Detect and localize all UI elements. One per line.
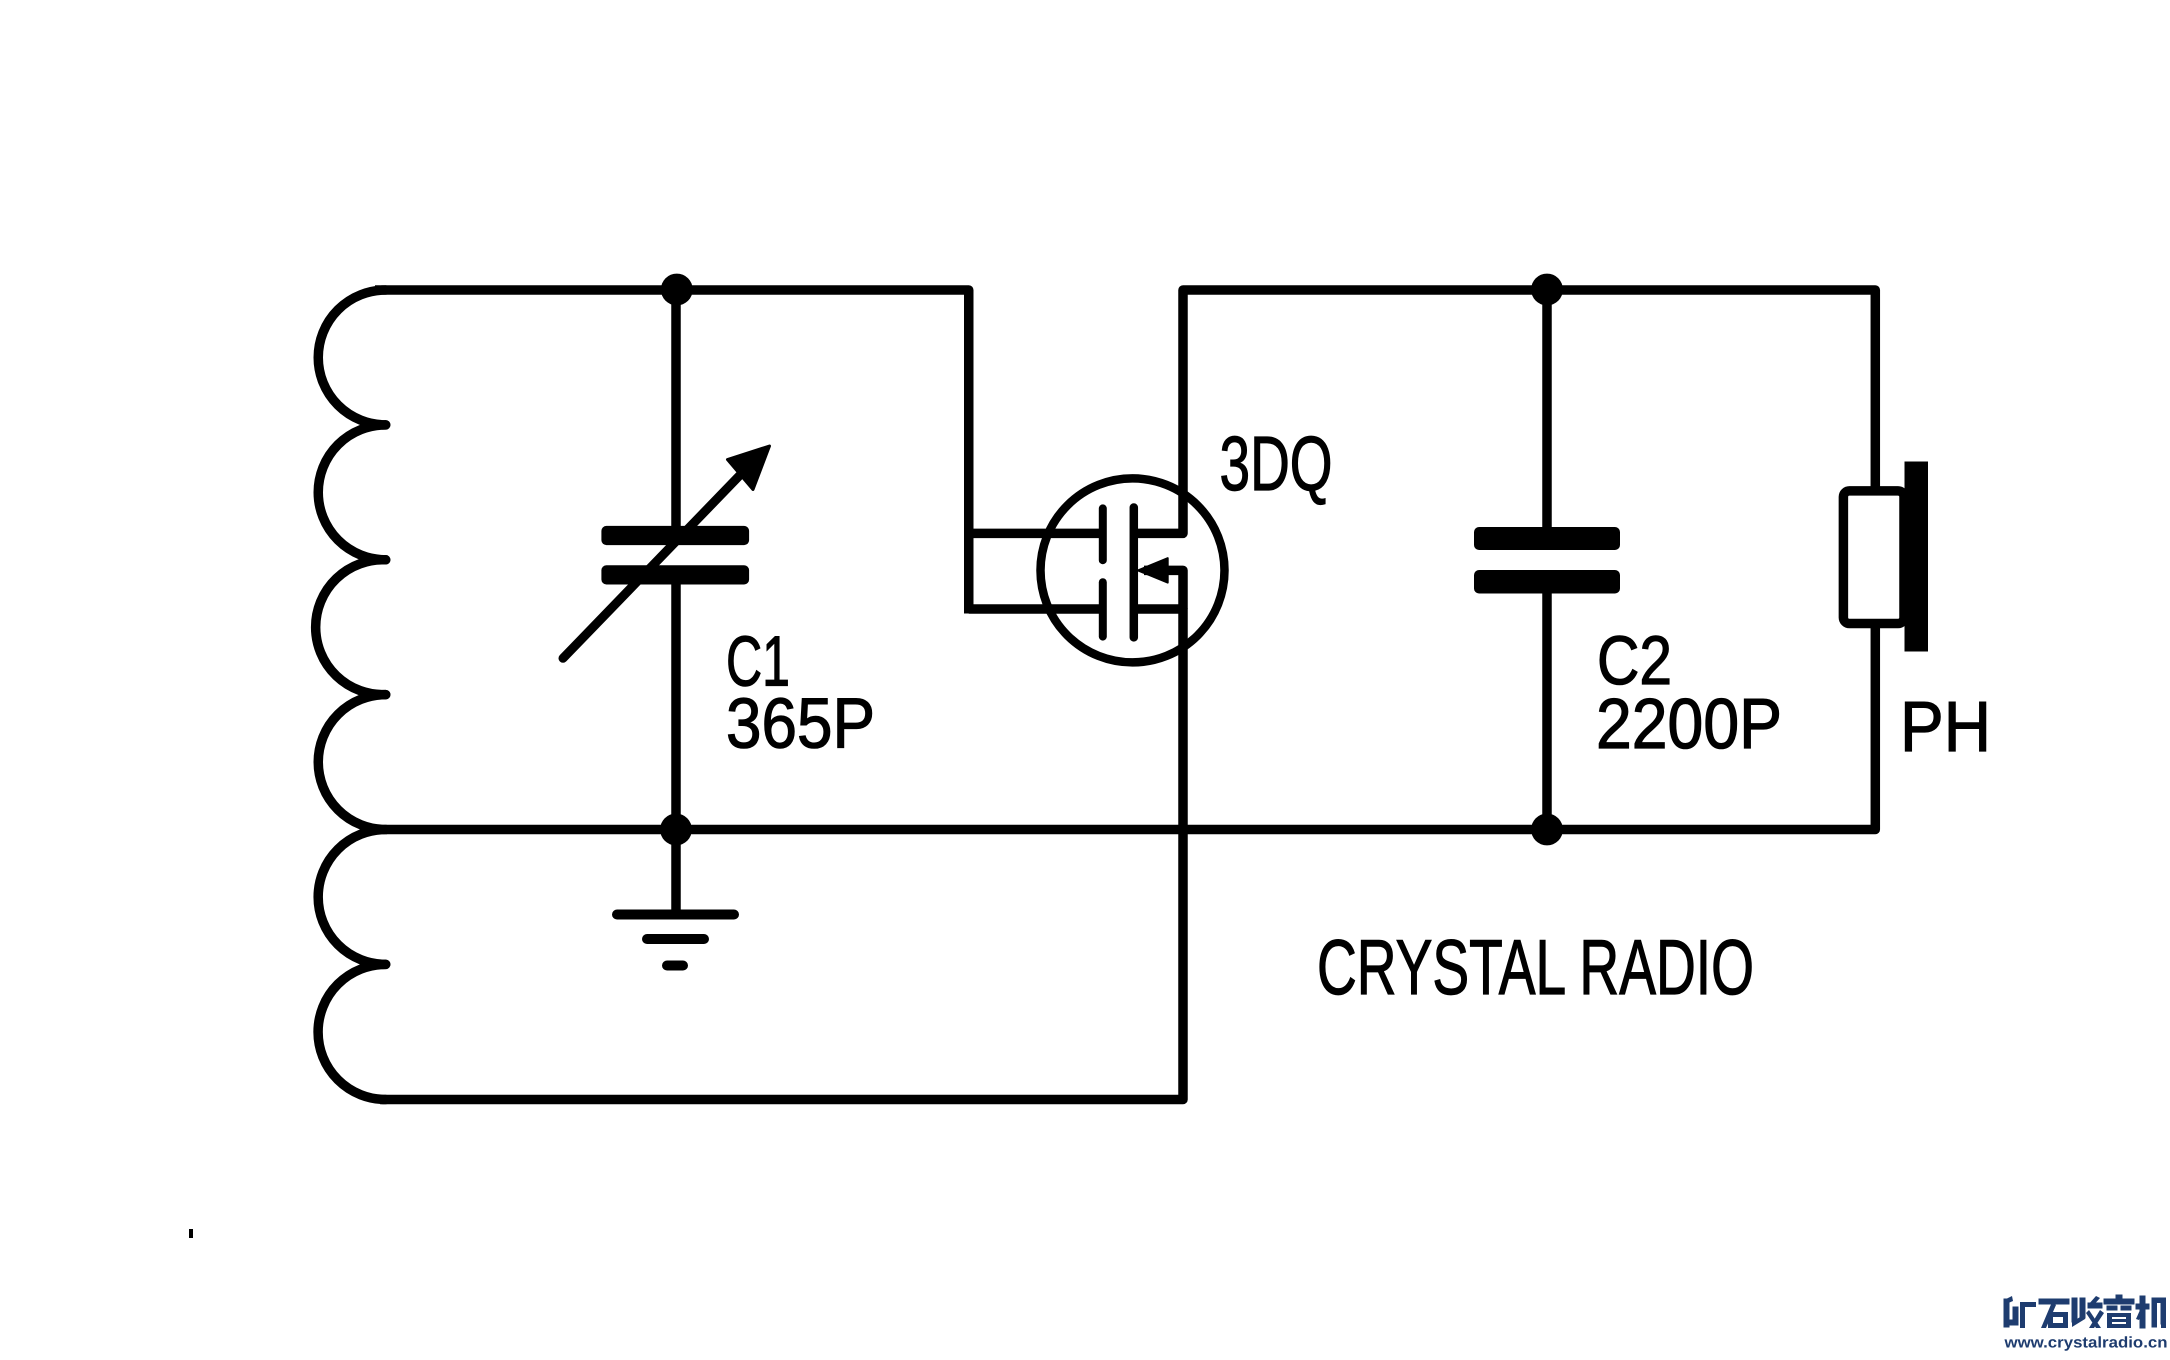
wire C2 bottom lead <box>1542 591 1552 830</box>
wire C1 top lead <box>671 290 681 528</box>
svg-text:365P: 365P <box>726 685 875 764</box>
junction dot node ground rail / C2 bottom <box>1531 814 1563 846</box>
svg-text:CRYSTAL RADIO: CRYSTAL RADIO <box>1317 923 1754 1011</box>
watermark CJK 矿石收音机 (drawn strokes) <box>2004 1295 2166 1328</box>
capacitor C1 variable: adjustment arrow shaft <box>563 473 742 658</box>
transistor Q1 MOSFET 3DQ: body circle <box>1041 478 1225 662</box>
wire substrate tie (arrow line to source) <box>1144 570 1183 609</box>
wire gate lead G2 <box>969 604 1100 614</box>
capacitor C2: top plate <box>1474 527 1620 550</box>
svg-text:2200P: 2200P <box>1596 685 1782 764</box>
wire drain rail (drain up to top rail right, to PH top) <box>1134 290 1876 533</box>
wire gate lead G1 <box>969 529 1100 539</box>
wire source down to bottom rail back to coil bottom <box>380 609 1183 1100</box>
junction dot node tank-top / C1 top <box>661 274 693 306</box>
ground symbol: bar 3 <box>667 961 683 971</box>
transistor Q1: gate bar lower segment <box>1099 582 1107 636</box>
inductor L1 antenna coil upper section <box>316 290 386 830</box>
transistor Q1: gate bar upper segment <box>1099 508 1107 560</box>
capacitor C1 variable: bottom plate <box>601 565 749 584</box>
junction dot node tank-bottom / C1 bottom <box>660 814 692 846</box>
wire top rail left (coil top to gate feed) with gate feed vertical <box>375 290 969 614</box>
earphone PH: body rectangle <box>1843 491 1904 624</box>
wire C1 bottom lead <box>671 581 681 830</box>
inductor L1 antenna coil lower section <box>318 830 386 1100</box>
svg-text:www.crystalradio.cn: www.crystalradio.cn <box>2003 1335 2167 1352</box>
earphone PH: diaphragm bar <box>1905 462 1929 652</box>
capacitor C1 variable: adjustment arrow head <box>728 446 770 490</box>
ground symbol: bar 1 <box>617 910 734 920</box>
transistor Q1: substrate arrow head <box>1138 558 1168 582</box>
svg-text:3DQ: 3DQ <box>1220 421 1333 507</box>
capacitor C1 variable: top plate <box>601 526 749 545</box>
wire ground stub <box>671 830 681 915</box>
stray ink speck <box>189 1229 193 1238</box>
junction dot node drain rail / C2 top <box>1531 274 1563 306</box>
transistor Q1: channel bar <box>1130 508 1139 638</box>
svg-text:PH: PH <box>1900 688 1991 767</box>
capacitor C2: bottom plate <box>1474 570 1620 594</box>
wire middle rail (tank bottom / ground net) to PH bottom <box>386 623 1875 830</box>
ground symbol: bar 2 <box>647 934 704 944</box>
wire C2 top lead <box>1542 290 1552 528</box>
